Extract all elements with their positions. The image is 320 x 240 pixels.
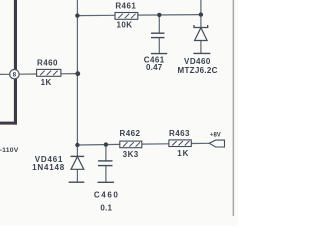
svg-text:0.47: 0.47: [146, 63, 163, 72]
svg-text:VD460: VD460: [184, 57, 211, 66]
svg-text:R461: R461: [115, 2, 136, 11]
svg-text:1N4148: 1N4148: [32, 163, 65, 172]
svg-text:0.1: 0.1: [100, 204, 112, 213]
svg-text:R460: R460: [37, 59, 58, 68]
svg-text:C460: C460: [94, 191, 120, 200]
svg-text:1K: 1K: [177, 149, 189, 158]
svg-text:+8V: +8V: [210, 133, 221, 139]
svg-text:R463: R463: [169, 129, 190, 138]
svg-text:-110V: -110V: [0, 147, 19, 154]
svg-text:R462: R462: [120, 129, 141, 138]
svg-text:MTZJ6.2C: MTZJ6.2C: [178, 66, 218, 75]
svg-text:10K: 10K: [116, 21, 132, 30]
svg-text:1K: 1K: [41, 78, 52, 87]
svg-text:3K3: 3K3: [123, 150, 139, 159]
